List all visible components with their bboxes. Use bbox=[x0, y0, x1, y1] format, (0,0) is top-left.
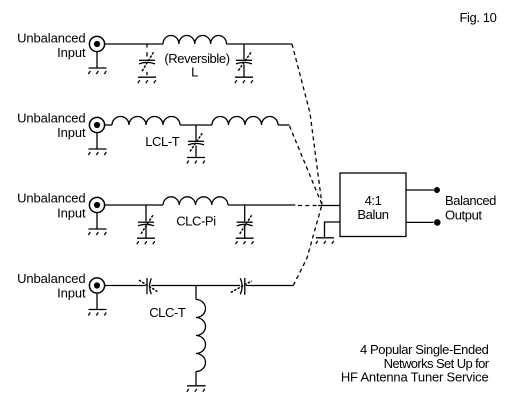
wire junction to L5 bbox=[195, 286, 197, 300]
wire dashed row4 to balun node bbox=[293, 205, 322, 286]
label Unbalanced Input row2 bbox=[17, 111, 86, 141]
wire node to balun bbox=[318, 205, 340, 207]
ground J3 bbox=[88, 229, 106, 235]
svg-text:Balun: Balun bbox=[357, 207, 388, 222]
wire J2 to ground bbox=[96, 133, 98, 149]
wire J3 to ground bbox=[96, 213, 98, 229]
label Balanced bbox=[445, 193, 496, 208]
capacitor C4 bbox=[138, 205, 154, 238]
wire dashed row1 to balun node bbox=[292, 44, 322, 205]
wire L5 to ground bbox=[195, 372, 197, 386]
svg-text:Unbalanced: Unbalanced bbox=[17, 111, 85, 126]
label LCL-T bbox=[145, 134, 180, 149]
caption line 3 bbox=[341, 370, 489, 385]
label CLC-T bbox=[149, 305, 186, 320]
ground C5 bbox=[236, 238, 254, 244]
svg-text:Unbalanced: Unbalanced bbox=[17, 31, 85, 46]
capacitor C5 bbox=[237, 205, 253, 238]
svg-text:L: L bbox=[191, 65, 198, 80]
label CLC-Pi bbox=[176, 213, 216, 228]
label Unbalanced Input row3 bbox=[17, 191, 86, 221]
label Balun bbox=[357, 207, 388, 222]
svg-text:Unbalanced: Unbalanced bbox=[17, 191, 85, 206]
label Unbalanced Input row4 bbox=[17, 271, 86, 301]
wire balun output bottom bbox=[406, 221, 434, 223]
capacitor C7 bbox=[231, 278, 252, 295]
svg-text:LCL-T: LCL-T bbox=[145, 134, 180, 149]
connector J3 bbox=[89, 197, 104, 212]
ground balun bbox=[316, 238, 334, 244]
ground C3 bbox=[187, 158, 205, 164]
wire J4 to C6 bbox=[105, 285, 146, 287]
svg-text:Balanced: Balanced bbox=[445, 193, 496, 208]
svg-text:Input: Input bbox=[57, 125, 86, 140]
svg-text:HF Antenna Tuner Service: HF Antenna Tuner Service bbox=[341, 370, 489, 385]
ground C1 bbox=[138, 77, 156, 83]
svg-text:CLC-T: CLC-T bbox=[149, 305, 186, 320]
inductor L3 bbox=[212, 117, 278, 126]
ground L5 bbox=[187, 386, 206, 392]
caption line 2 bbox=[384, 356, 490, 371]
svg-text:Unbalanced: Unbalanced bbox=[17, 271, 85, 286]
svg-text:Fig. 10: Fig. 10 bbox=[460, 10, 497, 25]
connector J1 bbox=[89, 36, 104, 51]
terminal bottom bbox=[434, 219, 441, 226]
inductor L4 bbox=[163, 197, 228, 205]
svg-text:Input: Input bbox=[57, 205, 86, 220]
svg-text:Input: Input bbox=[57, 286, 86, 301]
svg-text:CLC-Pi: CLC-Pi bbox=[176, 213, 216, 228]
wire balun lower input bbox=[325, 222, 341, 237]
connector J4 bbox=[89, 278, 104, 293]
inductor L2 bbox=[112, 117, 180, 126]
svg-text:4:1: 4:1 bbox=[365, 193, 382, 208]
ground J2 bbox=[88, 149, 106, 155]
terminal top bbox=[434, 187, 440, 193]
svg-text:4 Popular Single-Ended: 4 Popular Single-Ended bbox=[360, 342, 489, 357]
svg-text:Input: Input bbox=[57, 45, 86, 60]
balun U1 box bbox=[340, 173, 406, 237]
ground J4 bbox=[88, 310, 106, 316]
wire row3 main bbox=[105, 204, 296, 206]
wire row1 main bbox=[105, 43, 292, 45]
ground J1 bbox=[88, 68, 106, 74]
caption line 1 bbox=[360, 342, 489, 357]
capacitor C2 bbox=[236, 44, 252, 77]
svg-text:Networks Set Up for: Networks Set Up for bbox=[384, 356, 490, 371]
wire L2 to L3 bbox=[180, 124, 212, 126]
wire J1 to ground bbox=[96, 52, 98, 68]
label Unbalanced Input row1 bbox=[17, 31, 86, 60]
capacitor C3 bbox=[188, 125, 204, 157]
label Output bbox=[445, 207, 482, 222]
inductor L5 bbox=[196, 300, 206, 372]
capacitor C6 bbox=[139, 278, 158, 294]
ground C4 bbox=[137, 238, 155, 244]
ground C2 bbox=[235, 77, 253, 83]
wire dashed row3 to balun node bbox=[298, 205, 318, 207]
capacitor C1 (dashed reversible position) bbox=[139, 44, 155, 75]
svg-text:Output: Output bbox=[445, 207, 482, 222]
label (Reversible) bbox=[164, 51, 229, 66]
wire C7 right bbox=[246, 285, 293, 287]
wire dashed row2 to balun node bbox=[290, 126, 323, 205]
wire C6 to C7 bbox=[151, 285, 240, 287]
connector J2 bbox=[89, 117, 104, 132]
label 4:1 bbox=[365, 193, 382, 208]
wire balun output top bbox=[406, 189, 434, 191]
inductor L1 bbox=[163, 35, 227, 44]
wire J4 to ground bbox=[96, 293, 98, 309]
label Fig. 10 bbox=[460, 10, 497, 25]
wire J2 to L2 bbox=[105, 124, 112, 126]
label L bbox=[191, 65, 198, 80]
wire L3 right bbox=[278, 124, 290, 126]
